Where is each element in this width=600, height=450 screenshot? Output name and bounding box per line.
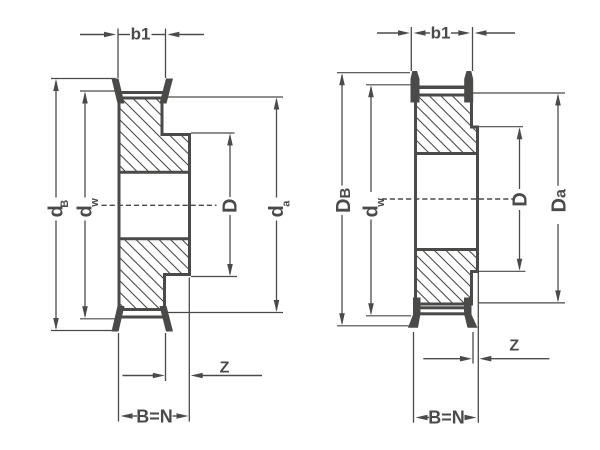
dim Da line <box>557 96 559 186</box>
dim da extension bottom <box>167 312 283 314</box>
dim B=N line <box>131 415 137 417</box>
dim da extension top <box>165 96 284 98</box>
flange bottom-right <box>160 306 174 332</box>
belt seat line bottom upper right fig <box>420 306 466 309</box>
belt seat line top right fig <box>420 86 466 90</box>
dim dw line <box>84 94 86 198</box>
dim D line <box>229 136 231 198</box>
flange top-right right fig <box>464 71 473 103</box>
dim Z extension left right fig <box>472 332 474 364</box>
svg-text:da: da <box>266 200 293 218</box>
dim Z line <box>123 375 155 377</box>
dim D extension top right fig <box>479 126 523 128</box>
dim dB extension bottom <box>51 330 113 332</box>
dim D line right fig <box>519 129 521 189</box>
svg-text:D: D <box>219 199 241 213</box>
svg-text:B=N: B=N <box>136 406 173 426</box>
hub bore left wall right fig <box>414 154 417 250</box>
belt seat line bottom lower right fig <box>420 312 466 315</box>
svg-text:D: D <box>509 192 531 206</box>
flange top-right <box>160 79 174 104</box>
svg-text:DB: DB <box>333 188 355 213</box>
flange bottom-right right fig <box>464 298 478 328</box>
dim dB line <box>55 81 57 198</box>
dim B=N line right fig <box>426 417 429 419</box>
svg-text:dB: dB <box>45 200 71 218</box>
dim dw extension bottom right fig <box>366 315 411 317</box>
dim D extension bottom <box>191 276 237 278</box>
belt seat line bottom <box>121 316 163 319</box>
dim b1 arrowheads right fig <box>398 30 410 36</box>
dim DB extension top <box>337 72 410 74</box>
dim dw extension bottom <box>80 318 117 320</box>
svg-text:b1: b1 <box>131 25 151 44</box>
hub bore left wall <box>118 172 121 239</box>
hatched body upper half right <box>416 95 478 154</box>
dim b1 extension left <box>117 29 119 79</box>
dim b1 extension right <box>165 29 167 79</box>
dim b1 extension right right fig <box>472 27 474 71</box>
dim Z extension left <box>165 333 167 381</box>
svg-text:b1: b1 <box>431 24 451 43</box>
svg-text:B=N: B=N <box>428 407 465 427</box>
hub bore right wall right fig <box>476 154 479 250</box>
belt seat line top <box>121 91 163 94</box>
dim b1 arrowheads <box>104 32 116 38</box>
dim dw line right fig <box>370 87 372 192</box>
dim dw extension top <box>80 90 117 92</box>
svg-text:Z: Z <box>220 359 230 376</box>
flange top-left right fig <box>411 71 420 103</box>
flange bottom-left right fig <box>408 298 421 328</box>
dim B=N extension left right fig <box>413 332 415 423</box>
dim b1 line <box>80 34 204 36</box>
svg-text:dw: dw <box>74 198 101 218</box>
dim b1 line right fig <box>377 32 515 34</box>
flange bottom-left <box>112 306 125 332</box>
dim dw extension top right fig <box>366 84 411 86</box>
centerline <box>102 204 217 206</box>
dim dB extension top <box>51 78 116 80</box>
dim da line <box>276 100 278 198</box>
dim D extension top <box>191 132 235 134</box>
centerline right <box>382 198 515 200</box>
dim B=N extension left <box>118 333 120 422</box>
dim DB extension bottom <box>337 325 409 327</box>
hatched body upper half <box>119 98 190 172</box>
svg-text:Da: Da <box>549 189 571 212</box>
dim B=N extension right <box>188 278 190 422</box>
dim Z extension right right fig <box>477 273 479 423</box>
dim Z line right fig <box>423 358 461 360</box>
dim DB line <box>341 75 343 185</box>
hatched body lower half <box>119 239 190 310</box>
svg-text:Z: Z <box>509 338 519 355</box>
dim D extension bottom right fig <box>479 270 526 272</box>
dim Da extension bottom <box>479 302 565 304</box>
flange top-left <box>112 79 125 104</box>
hatched body lower half right <box>416 250 478 305</box>
dim Da extension top <box>473 92 565 94</box>
hub bore right wall <box>188 172 191 239</box>
dim b1 extension left right fig <box>410 27 412 71</box>
svg-text:dw: dw <box>361 198 388 218</box>
